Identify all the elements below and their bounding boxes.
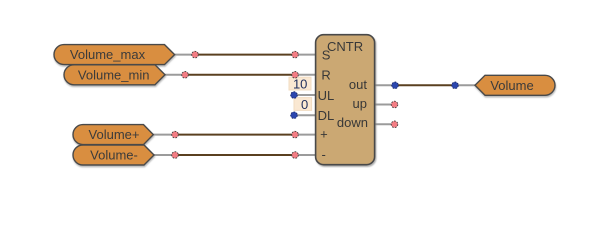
svg-text:Volume_min: Volume_min [78,67,150,82]
svg-text:down: down [337,115,368,130]
svg-text:DL: DL [318,108,335,123]
svg-text:out: out [349,77,367,92]
svg-text:Volume-: Volume- [90,148,138,163]
svg-text:S: S [322,47,331,62]
svg-text:10: 10 [293,77,307,92]
svg-text:R: R [321,68,330,83]
svg-text:Volume: Volume [490,78,533,93]
svg-text:CNTR: CNTR [327,39,363,54]
svg-text:Volume+: Volume+ [89,127,140,142]
svg-text:up: up [353,96,367,111]
svg-text:+: + [320,126,328,141]
svg-text:0: 0 [301,97,308,112]
svg-text:Volume_max: Volume_max [70,47,146,62]
svg-text:UL: UL [318,88,335,103]
svg-text:-: - [322,147,326,162]
